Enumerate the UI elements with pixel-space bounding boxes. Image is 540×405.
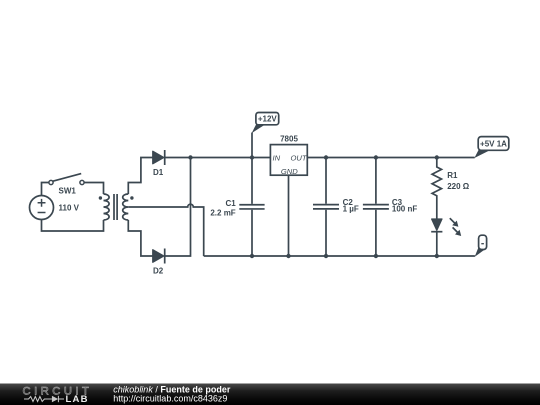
svg-text:D1: D1 xyxy=(153,168,164,177)
svg-text:7805: 7805 xyxy=(280,135,298,144)
svg-text:C1: C1 xyxy=(225,199,236,208)
svg-text:SW1: SW1 xyxy=(59,187,77,196)
svg-text:110 V: 110 V xyxy=(59,203,80,212)
svg-text:R1: R1 xyxy=(447,171,458,180)
svg-text:100 nF: 100 nF xyxy=(392,204,417,213)
svg-text:IN: IN xyxy=(273,153,281,162)
svg-text:2.2 mF: 2.2 mF xyxy=(210,208,235,217)
svg-text:http://circuitlab.com/c8436z9: http://circuitlab.com/c8436z9 xyxy=(113,393,227,403)
svg-text:GND: GND xyxy=(281,167,298,176)
svg-text:D2: D2 xyxy=(153,266,164,275)
svg-text:OUT: OUT xyxy=(290,153,307,162)
svg-text:220 Ω: 220 Ω xyxy=(447,182,470,191)
svg-text:LAB: LAB xyxy=(66,394,89,405)
svg-text:1 µF: 1 µF xyxy=(343,204,359,213)
svg-text:+12V: +12V xyxy=(258,115,278,124)
svg-text:+5V 1A: +5V 1A xyxy=(480,140,507,149)
